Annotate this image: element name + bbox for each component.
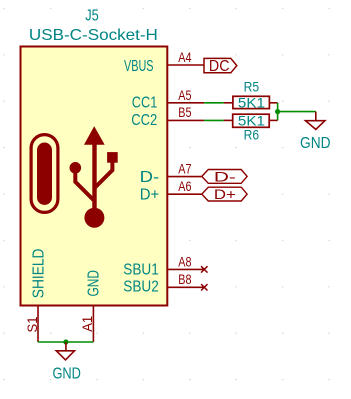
pin SBU1 A8 [167, 268, 204, 270]
global label D+ [202, 187, 247, 201]
svg-text:5K1: 5K1 [238, 113, 265, 129]
trident left branch [75, 170, 94, 201]
no-connect X SBU1 [201, 266, 207, 272]
svg-text:SBU1: SBU1 [123, 262, 159, 279]
svg-text:CC2: CC2 [131, 112, 157, 129]
svg-text:A7: A7 [178, 160, 191, 176]
USB-C stadium inner fill [37, 143, 52, 206]
svg-text:5K1: 5K1 [238, 94, 265, 110]
svg-text:B8: B8 [178, 271, 191, 287]
svg-text:A1: A1 [79, 316, 95, 332]
svg-text:GND: GND [300, 135, 331, 152]
pin CC2 B5 [167, 119, 204, 121]
wire S1 to A1 [38, 341, 93, 343]
pin VBUS A4 [167, 64, 204, 66]
junction [275, 109, 280, 114]
pin D- A7 [167, 176, 204, 178]
svg-text:A8: A8 [178, 253, 191, 269]
wire CC2 to R6 [204, 119, 224, 121]
global label DC [204, 58, 237, 72]
pin A1 [92, 306, 94, 343]
USB trident icon [70, 126, 118, 228]
pin SBU2 B8 [167, 286, 204, 288]
pin CC1 A5 [167, 102, 204, 104]
svg-text:GND: GND [85, 270, 102, 297]
junction bottom [63, 339, 68, 344]
wire junction to GND [278, 111, 316, 113]
svg-text:B5: B5 [178, 104, 191, 120]
svg-text:GND: GND [52, 366, 81, 383]
wire resistor outputs vertical [277, 103, 279, 121]
pin S1 [37, 306, 39, 343]
svg-text:D-: D- [140, 169, 160, 186]
power GND right [315, 112, 317, 121]
resistor R5 [224, 102, 233, 104]
no-connect X SBU2 [201, 284, 207, 290]
svg-text:D+: D+ [140, 187, 160, 204]
svg-text:A6: A6 [178, 178, 191, 194]
connector body U/J5 box [21, 47, 168, 306]
svg-text:VBUS: VBUS [124, 58, 154, 75]
trident right branch [95, 161, 113, 188]
svg-text:SHIELD: SHIELD [31, 249, 48, 299]
svg-text:R5: R5 [244, 78, 260, 94]
svg-text:A4: A4 [178, 49, 191, 65]
svg-text:USB-C-Socket-H: USB-C-Socket-H [29, 27, 158, 44]
svg-text:R6: R6 [244, 127, 260, 143]
svg-text:A5: A5 [178, 87, 191, 103]
USB-C connector stadium outline [31, 135, 58, 213]
power GND bottom [65, 342, 67, 351]
svg-text:SBU2: SBU2 [123, 279, 159, 296]
resistor R6 [224, 119, 233, 121]
svg-text:D-: D- [214, 168, 236, 184]
svg-text:CC1: CC1 [132, 94, 158, 111]
svg-text:J5: J5 [85, 8, 99, 25]
wire CC1 to R5 [204, 102, 224, 104]
global label D- [202, 170, 247, 184]
svg-text:D+: D+ [214, 186, 236, 202]
pin D+ A6 [167, 193, 204, 195]
svg-text:S1: S1 [24, 316, 40, 332]
svg-text:DC: DC [209, 58, 230, 75]
